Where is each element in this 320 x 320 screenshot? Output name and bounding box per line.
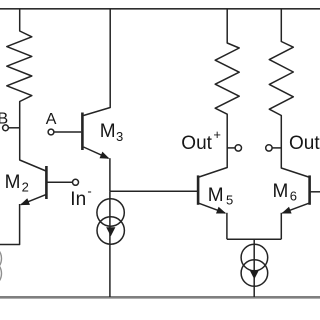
svg-text:M: M xyxy=(273,181,289,202)
svg-text:B: B xyxy=(0,110,8,127)
svg-text:A: A xyxy=(46,111,57,128)
svg-text:5: 5 xyxy=(226,193,233,208)
svg-text:M: M xyxy=(100,121,116,142)
svg-text:In: In xyxy=(70,189,86,210)
svg-text:2: 2 xyxy=(22,179,29,194)
svg-text:Out: Out xyxy=(289,133,320,154)
svg-text:6: 6 xyxy=(290,189,297,204)
svg-text:Out: Out xyxy=(181,133,212,154)
svg-text:M: M xyxy=(5,172,21,193)
svg-text:M: M xyxy=(208,185,224,206)
svg-text:-: - xyxy=(87,183,91,198)
svg-text:+: + xyxy=(213,127,221,142)
svg-text:3: 3 xyxy=(116,129,123,144)
